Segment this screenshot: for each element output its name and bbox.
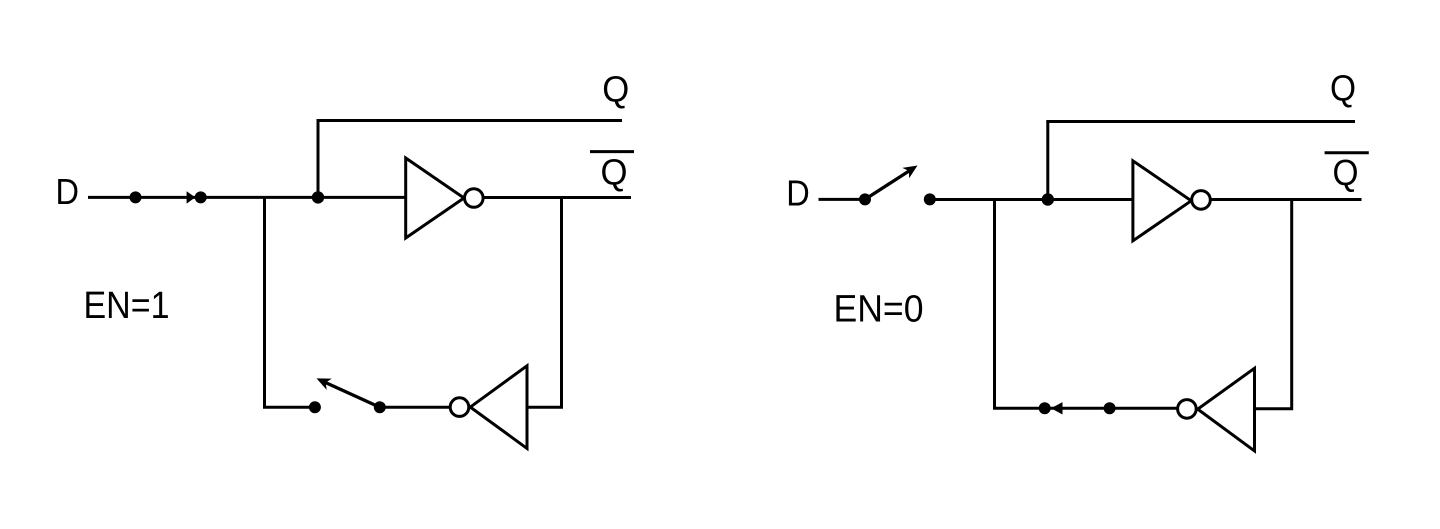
node: switch S1 left contact dot [130, 191, 142, 203]
op-amp/inverter U4 triangle (faces left) [1198, 368, 1255, 451]
wire: U4 output through closed switch S4 [1045, 407, 1177, 410]
node: switch S4 left contact dot [1039, 402, 1051, 414]
label Qbar overline (right) [1325, 151, 1369, 154]
svg-text:D: D [786, 173, 810, 214]
svg-text:D: D [56, 171, 80, 212]
node: switch S3 lever pivot dot [859, 193, 871, 205]
node: switch S2 left contact dot [309, 401, 321, 413]
node: switch S2 lever pivot dot [374, 401, 386, 413]
wire: vertical up to Q rail [317, 121, 320, 198]
svg-text:Q: Q [601, 152, 628, 193]
wire: D input horizontal line [88, 196, 406, 199]
wire: feedback vertical from Qbar down to U4 input (right) [1255, 200, 1292, 409]
switch S3 (open) lever [865, 171, 909, 199]
node: switch S4 right contact dot [1104, 402, 1116, 414]
inverter U4 bubble [1178, 400, 1197, 419]
node: switch S1 right contact dot [195, 191, 207, 203]
wire: U2 output to switch S2 [380, 406, 450, 409]
svg-text:Q: Q [1333, 152, 1359, 193]
inverter U3 bubble [1192, 191, 1211, 210]
op-amp/inverter U1 triangle [406, 158, 464, 238]
op-amp/inverter U3 triangle [1133, 161, 1191, 241]
svg-text:EN=0: EN=0 [834, 289, 924, 331]
switch S4 (closed) arrowhead [1051, 402, 1063, 414]
wire: U1 output to Qbar [484, 196, 632, 199]
inverter U1 bubble [465, 189, 484, 208]
node: junction dot to Q rail (right) [1042, 193, 1054, 205]
wire: U3 output to Qbar (right) [1211, 198, 1362, 201]
node: switch S3 right contact dot [924, 193, 936, 205]
inverter U2 bubble [450, 398, 469, 417]
switch S1 (closed) arrowhead [187, 191, 196, 203]
label Qbar overline (left) [590, 150, 634, 153]
svg-text:Q: Q [1330, 68, 1356, 109]
wire: input line to inverter U3 [930, 198, 1133, 201]
op-amp/inverter U2 triangle (faces left) [470, 366, 527, 449]
wire: Q output top rail [317, 119, 623, 122]
svg-text:EN=1: EN=1 [84, 285, 170, 327]
wire: feedback vertical from Qbar line down to U2 input [527, 198, 562, 408]
switch S2 (open) arrowhead [317, 378, 332, 390]
switch S2 (open) lever [326, 383, 380, 408]
node: junction dot to Q rail [312, 191, 324, 203]
wire: Q output top rail (right) [1046, 120, 1355, 123]
wire: D input stub to open switch [819, 198, 866, 201]
switch S3 (open) arrowhead [902, 166, 917, 179]
wire: vertical branch down to feedback line [995, 200, 1045, 409]
svg-text:Q: Q [602, 68, 629, 109]
wire: vertical branch down to feedback contact [265, 197, 315, 407]
wire: vertical up to Q rail (right) [1046, 122, 1049, 200]
